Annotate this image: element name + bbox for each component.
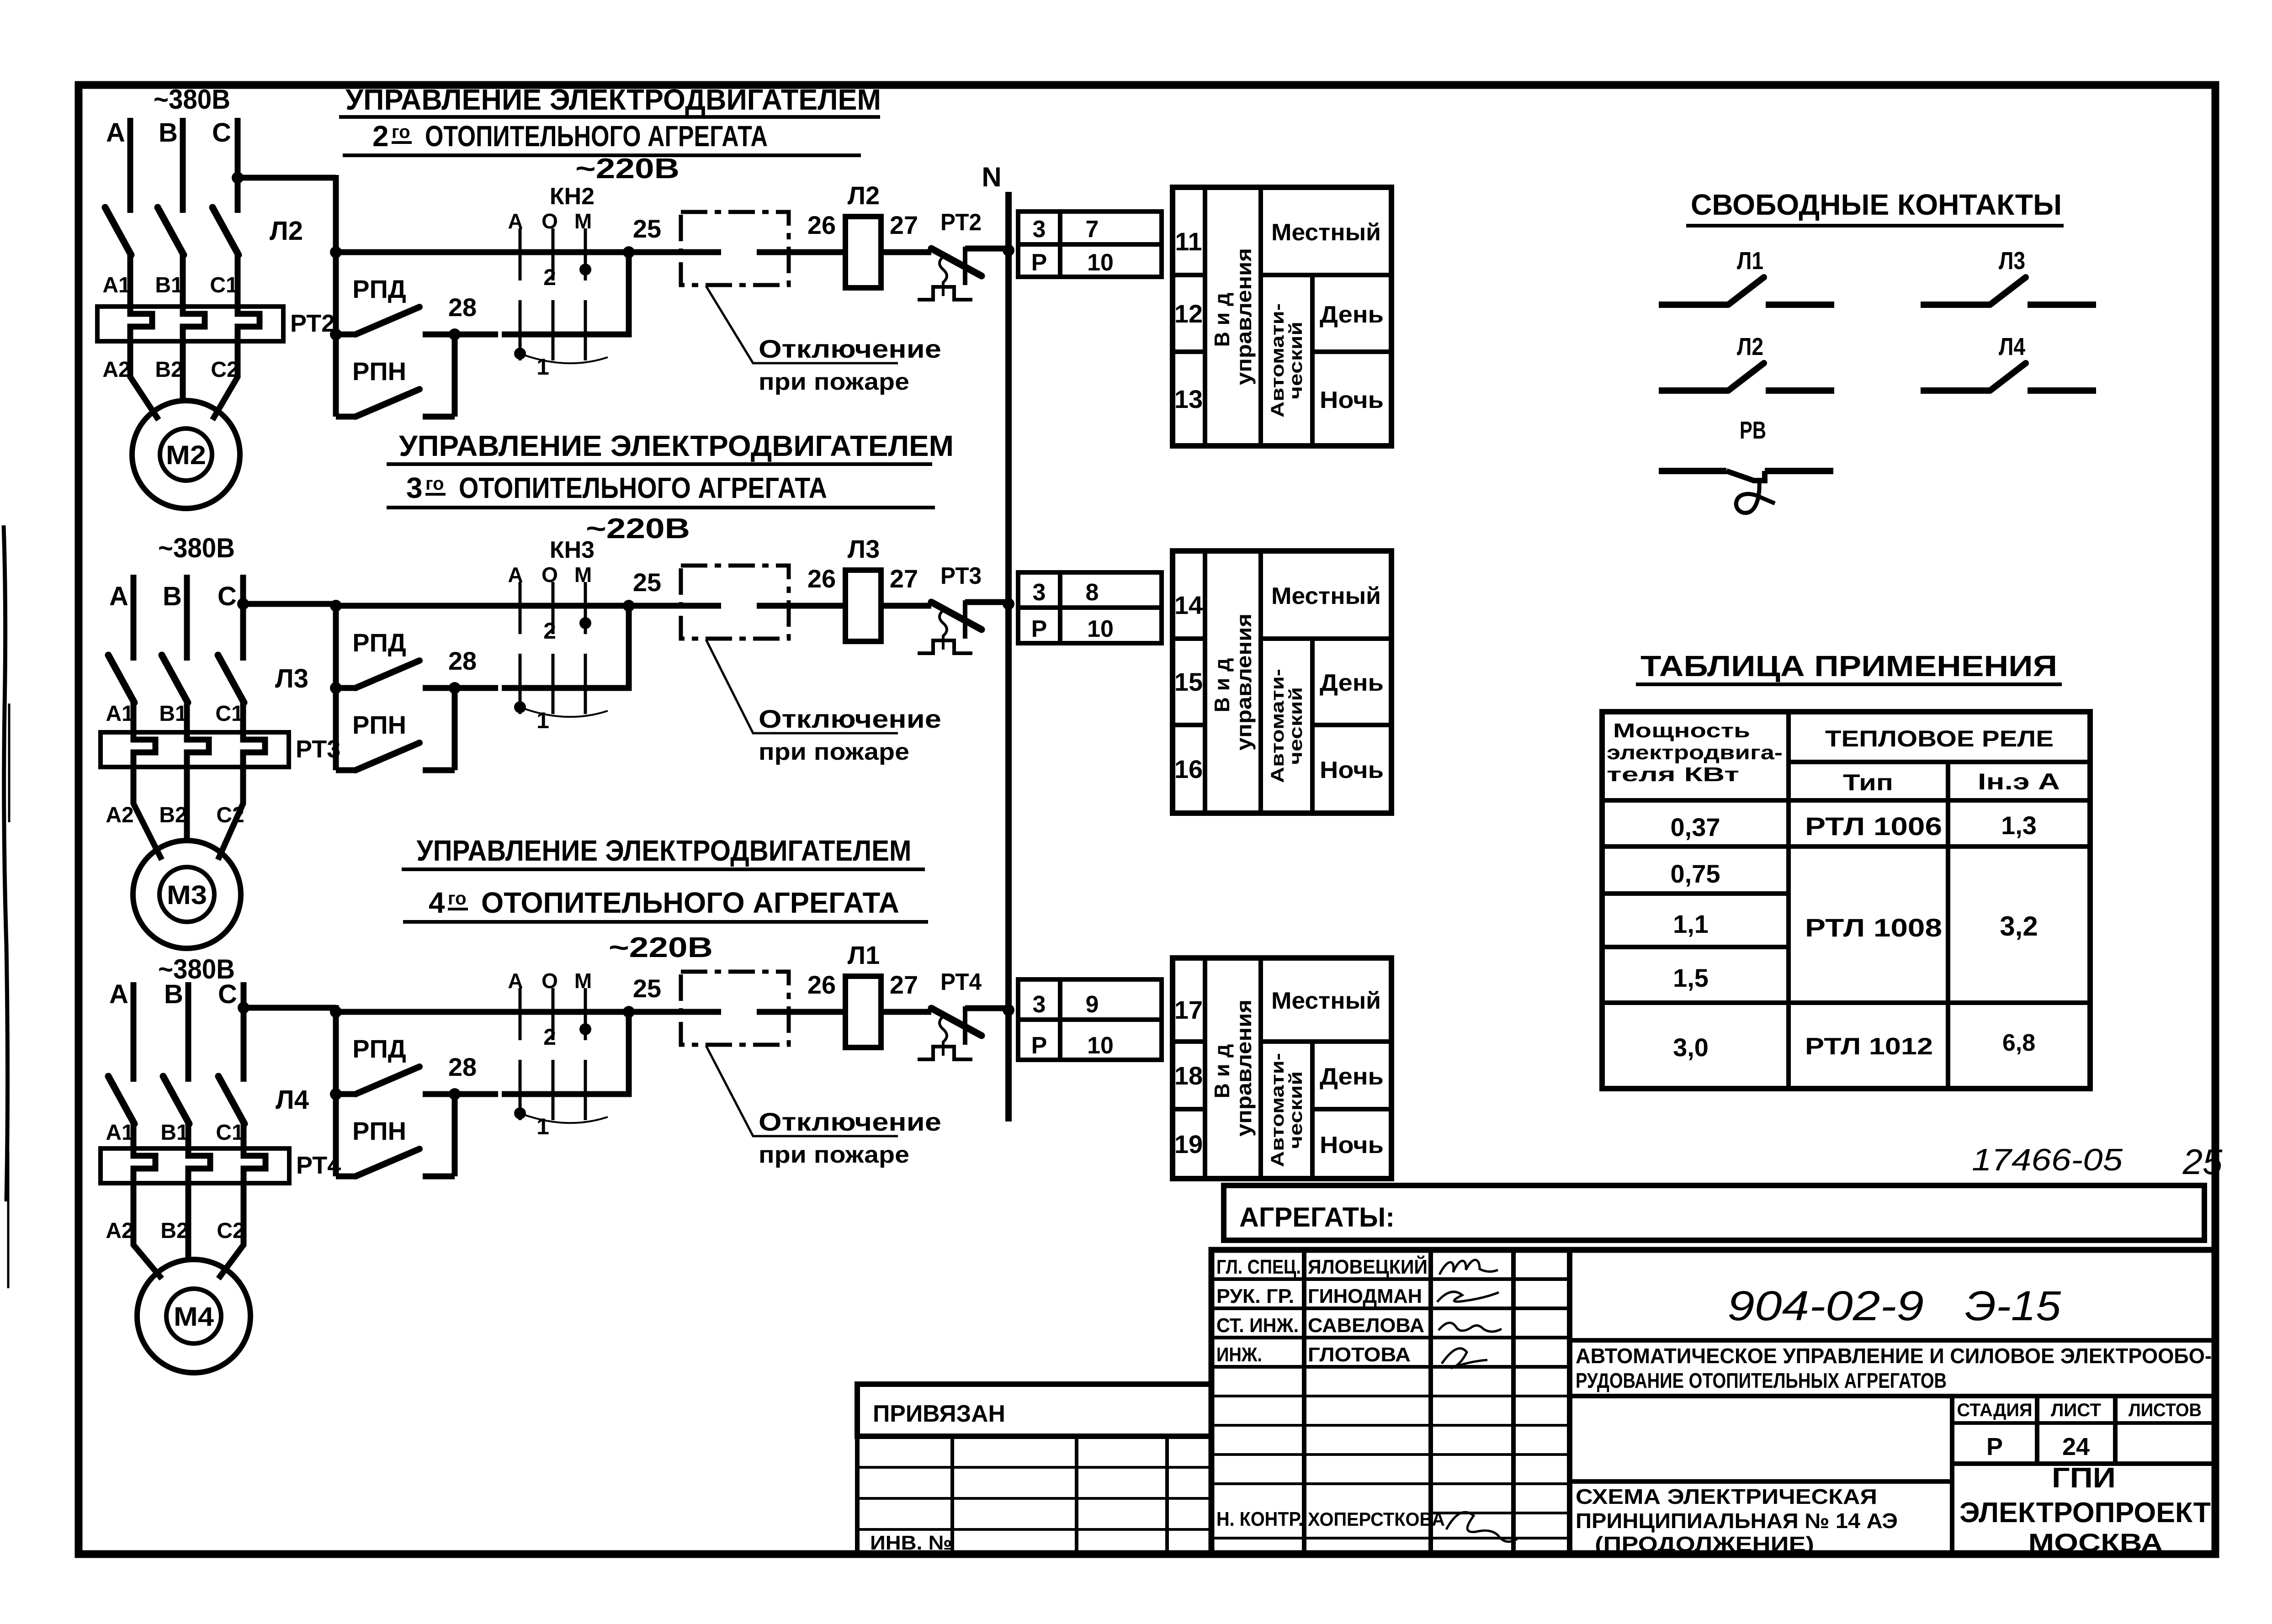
free contact L1 blade <box>1728 277 1764 305</box>
svg-text:ИНВ. №: ИНВ. № <box>870 1532 952 1554</box>
svg-text:при пожаре: при пожаре <box>759 739 909 765</box>
svg-text:ГИНОДМАН: ГИНОДМАН <box>1308 1285 1422 1307</box>
thermal relay РТ2 heater element pole C (circuit 1) <box>238 307 260 341</box>
svg-text:ческий: ческий <box>1286 1071 1306 1149</box>
fire-cutoff contact dash-dot box (circuit 3) <box>681 972 789 1045</box>
circuit 1 heading block <box>339 83 881 155</box>
wire coil to RT contact (circuit 2) <box>881 603 931 609</box>
svg-text:Л2: Л2 <box>1737 333 1763 360</box>
free contact RV time-delay hook <box>1736 481 1775 513</box>
svg-text:Л3: Л3 <box>848 534 880 563</box>
mode table 14-16 outer box <box>1173 551 1391 813</box>
svg-text:24: 24 <box>2062 1433 2090 1460</box>
switch upper contact ticks (circuit 3) <box>519 988 522 1040</box>
svg-text:День: День <box>1320 1063 1384 1090</box>
signature squiggle 3 <box>1439 1323 1502 1332</box>
heading underline 1 (circuit 3) <box>402 868 925 871</box>
svg-text:РТЛ 1006: РТЛ 1006 <box>1805 812 1942 841</box>
svg-text:Вид: Вид <box>1210 286 1234 347</box>
svg-text:ГЛ. СПЕЦ.: ГЛ. СПЕЦ. <box>1216 1256 1301 1278</box>
svg-text:РТ4: РТ4 <box>940 969 982 995</box>
junction dot feeder/main wire (circuit 1) <box>330 246 342 258</box>
wire phase C middle (circuit 3) <box>241 1122 247 1148</box>
junction dot feeder/RPD row (circuit 1) <box>330 328 342 340</box>
svg-text:управления: управления <box>1232 1000 1256 1137</box>
svg-text:Отключение: Отключение <box>759 334 941 363</box>
svg-text:УПРАВЛЕНИЕ ЭЛЕКТРОДВИГАТЕЛЕМ: УПРАВЛЕНИЕ ЭЛЕКТРОДВИГАТЕЛЕМ <box>399 429 954 462</box>
thermal contact РТ2 release bracket (circuit 1) <box>918 287 972 300</box>
svg-text:ПРИНЦИПИАЛЬНАЯ № 14 АЭ: ПРИНЦИПИАЛЬНАЯ № 14 АЭ <box>1576 1509 1898 1533</box>
signature squiggle 5 <box>1446 1512 1517 1542</box>
svg-text:25: 25 <box>633 214 661 243</box>
free contact RV left wire <box>1659 468 1726 474</box>
junction dot on N bus (circuit 3) <box>1003 1004 1014 1016</box>
svg-text:13: 13 <box>1174 385 1203 413</box>
svg-text:ГПИ: ГПИ <box>2052 1462 2116 1494</box>
svg-text:А2: А2 <box>102 358 130 382</box>
svg-text:В1: В1 <box>155 273 183 297</box>
svg-text:Л1: Л1 <box>1737 247 1763 275</box>
svg-text:Местный: Местный <box>1271 583 1381 609</box>
wire main control line left segment (circuit 3) <box>336 1009 498 1015</box>
svg-text:1: 1 <box>536 1114 549 1139</box>
fire-cutoff contact dash-dot box (circuit 1) <box>681 212 789 285</box>
svg-text:25: 25 <box>633 974 661 1003</box>
mode selection table rows 14-16 <box>1173 551 1391 813</box>
svg-text:Ночь: Ночь <box>1320 757 1384 783</box>
wire main control line through switch (circuit 1) <box>498 249 629 255</box>
wire phase B to motor (circuit 3) <box>186 1183 191 1261</box>
wire phase B middle (circuit 3) <box>186 1122 191 1148</box>
wire branch from phase C to control circuit (circuit 3) <box>244 1005 336 1011</box>
svg-text:Э-15: Э-15 <box>1965 1283 2061 1329</box>
svg-text:Тип: Тип <box>1843 770 1893 795</box>
wire phase C upper (circuit 1) <box>235 118 241 213</box>
title block outer box <box>1211 1250 2215 1554</box>
leader line to fire note (circuit 2) <box>706 640 898 733</box>
svg-text:РПН: РПН <box>352 710 406 739</box>
svg-text:ЯЛОВЕЦКИЙ: ЯЛОВЕЦКИЙ <box>1308 1255 1428 1278</box>
free contact L3 right wire <box>2028 302 2096 308</box>
thermal relay РТ3 heater element pole B (circuit 2) <box>187 732 209 767</box>
stage/sheet grid lines <box>1950 1396 1954 1554</box>
svg-text:МОСКВА: МОСКВА <box>2028 1528 2163 1557</box>
svg-text:М: М <box>574 209 592 233</box>
heading underline 1 (circuit 1) <box>339 115 880 119</box>
thermal relay РТ3 heater element pole A (circuit 2) <box>133 732 155 767</box>
svg-text:М3: М3 <box>167 880 207 910</box>
wire main control line left segment (circuit 1) <box>336 249 498 255</box>
heading underline 2 (circuit 2) <box>387 506 935 509</box>
wire phase C upper (circuit 3) <box>241 982 247 1082</box>
coil Л3 rectangle (circuit 2) <box>845 570 881 641</box>
contact RPN right wire (circuit 1) <box>423 414 455 420</box>
contactor Л2 blade pole C (circuit 1) <box>212 207 239 255</box>
thermal contact РТ2 blade (circuit 1) <box>931 249 982 276</box>
svg-text:27: 27 <box>890 211 918 239</box>
contact RPD left wire (circuit 2) <box>336 685 356 691</box>
signature squiggle 1 <box>1439 1260 1498 1275</box>
node 25 junction dot (circuit 3) <box>623 1006 635 1018</box>
mode table 14-16 grid lines <box>1203 551 1207 813</box>
svg-text:электродвига-: электродвига- <box>1607 741 1783 764</box>
mode table 14-16 vertical header Avtomaticheskiy <box>1268 669 1306 783</box>
svg-text:РПД: РПД <box>352 1034 406 1063</box>
svg-text:управления: управления <box>1232 248 1256 385</box>
svg-text:11: 11 <box>1175 227 1202 256</box>
node 25 junction dot (circuit 2) <box>623 600 635 612</box>
neutral bus N vertical wire <box>1005 192 1012 1121</box>
wire main control line through switch (circuit 3) <box>498 1009 629 1015</box>
free contact L4 blade <box>1990 363 2026 391</box>
contact RPN right wire (circuit 2) <box>423 767 455 773</box>
wire vertical feeder x=735 (circuit 1) <box>333 175 339 417</box>
wire vertical feeder x=735 (circuit 3) <box>333 1005 339 1176</box>
connection table 3/7 (circuit 1) <box>1018 212 1162 277</box>
svg-text:РПД: РПД <box>352 275 406 303</box>
title block line under project title <box>1570 1394 2215 1398</box>
power circuit 2 (motor M3) <box>101 533 340 948</box>
thermal contact РТ3 release squiggle (circuit 2) <box>940 610 947 650</box>
svg-text:го: го <box>448 889 467 909</box>
heading underline 2 (circuit 1) <box>343 153 861 157</box>
control circuit 3 (coil L1) <box>330 932 1162 1176</box>
svg-text:В: В <box>159 118 178 148</box>
svg-text:Р: Р <box>1986 1433 2003 1460</box>
svg-text:27: 27 <box>890 564 918 593</box>
wire phase C upper (circuit 2) <box>240 575 246 661</box>
free contact RV right wire <box>1765 468 1833 474</box>
svg-text:19: 19 <box>1174 1130 1203 1158</box>
svg-text:День: День <box>1320 670 1384 696</box>
mode table 11-13 grid lines <box>1203 187 1207 446</box>
svg-text:В2: В2 <box>159 803 187 827</box>
node 28 junction dot (circuit 3) <box>449 1088 461 1100</box>
svg-text:управления: управления <box>1232 614 1256 751</box>
switch lower contact ticks (circuit 1) <box>519 300 522 360</box>
svg-text:при пожаре: при пожаре <box>759 1142 909 1168</box>
wire phase C to motor (circuit 2) <box>218 767 243 860</box>
thermal relay РТ3 box (circuit 2) <box>101 732 289 767</box>
svg-text:25: 25 <box>633 568 661 597</box>
leader line to fire note (circuit 1) <box>706 286 898 363</box>
mode table 11-13 outer box <box>1173 187 1391 446</box>
Privyazan block <box>857 1384 1211 1554</box>
svg-text:С: С <box>212 118 231 148</box>
svg-text:28: 28 <box>448 646 477 675</box>
coil Л2 rectangle (circuit 1) <box>845 217 881 288</box>
svg-text:С2: С2 <box>217 1219 244 1243</box>
junction dot on N bus (circuit 1) <box>1003 244 1014 256</box>
svg-text:Л3: Л3 <box>275 664 308 693</box>
mode table 11-13 vertical header Vid upravleniya <box>1210 248 1256 385</box>
motor М4 outer circle (circuit 3) <box>137 1259 250 1373</box>
node 28 junction dot (circuit 1) <box>449 328 461 340</box>
svg-text:ПРИВЯЗАН: ПРИВЯЗАН <box>873 1401 1005 1427</box>
svg-text:28: 28 <box>448 293 477 322</box>
fire-cutoff contact wire stubs (circuit 3) <box>629 1009 721 1015</box>
svg-text:4: 4 <box>429 886 445 919</box>
thermal relay РТ2 heater element pole A (circuit 1) <box>130 307 152 341</box>
svg-text:ЛИСТОВ: ЛИСТОВ <box>2129 1400 2202 1420</box>
contact RPN blade (circuit 3) <box>356 1149 419 1176</box>
svg-text:РВ: РВ <box>1740 417 1766 444</box>
svg-text:ХОПЕРСТКОВА: ХОПЕРСТКОВА <box>1308 1508 1445 1530</box>
svg-text:В: В <box>163 582 182 611</box>
motor М2 inner circle (circuit 1) <box>160 428 212 481</box>
switch upper contact ticks (circuit 2) <box>519 582 522 634</box>
svg-text:14: 14 <box>1174 591 1203 619</box>
switch M-position dot (circuit 1) <box>579 264 591 275</box>
application table outer box <box>1602 712 2090 1089</box>
wire vertical feeder x=735 (circuit 2) <box>333 601 339 770</box>
svg-text:6,8: 6,8 <box>2002 1030 2035 1056</box>
switch upper contact ticks (circuit 1) <box>519 228 522 280</box>
svg-text:РТ2: РТ2 <box>940 209 982 236</box>
svg-text:3: 3 <box>1033 216 1046 243</box>
svg-text:1,3: 1,3 <box>2001 811 2037 840</box>
switch coupling arc (circuit 3) <box>520 1113 608 1123</box>
contactor Л4 blade pole A (circuit 3) <box>108 1076 134 1124</box>
wire main control line through switch (circuit 2) <box>498 603 629 609</box>
svg-text:А: А <box>109 582 128 611</box>
coil Л1 rectangle (circuit 3) <box>845 976 881 1047</box>
node 28 junction dot (circuit 2) <box>449 682 461 694</box>
thermal contact РТ4 release squiggle (circuit 3) <box>940 1016 947 1056</box>
svg-text:ОТОПИТЕЛЬНОГО АГРЕГАТА: ОТОПИТЕЛЬНОГО АГРЕГАТА <box>425 120 768 153</box>
svg-text:904-02-9: 904-02-9 <box>1727 1283 1924 1329</box>
svg-text:С1: С1 <box>215 702 243 726</box>
wire phase B to motor (circuit 1) <box>180 341 186 402</box>
svg-text:АВТОМАТИЧЕСКОЕ УПРАВЛЕНИЕ И СИ: АВТОМАТИЧЕСКОЕ УПРАВЛЕНИЕ И СИЛОВОЕ ЭЛЕК… <box>1576 1344 2212 1368</box>
svg-text:2: 2 <box>372 120 389 153</box>
wire node25 drop to lower switch row (circuit 3) <box>502 1012 629 1094</box>
wire phase B middle (circuit 1) <box>180 254 186 307</box>
svg-text:С1: С1 <box>216 1121 244 1145</box>
wire phase C to motor (circuit 1) <box>212 341 238 420</box>
wire node25 drop to lower switch row (circuit 1) <box>502 252 629 334</box>
contact RPD right wire to node 28 (circuit 3) <box>423 1091 498 1097</box>
thermal contact РТ2 output wire to N bus (circuit 1) <box>965 246 1008 252</box>
junction dot feeder/RPD row (circuit 2) <box>330 682 342 694</box>
title block line under document number <box>1570 1338 2215 1343</box>
signature squiggle 2 <box>1437 1292 1499 1302</box>
svg-text:А2: А2 <box>106 1219 133 1243</box>
wire phase A upper (circuit 2) <box>131 575 137 661</box>
wire phase A upper (circuit 1) <box>127 118 133 213</box>
thermal relay РТ4 heater element pole C (circuit 3) <box>244 1148 265 1183</box>
wire phase C to motor (circuit 3) <box>218 1183 244 1279</box>
svg-text:В1: В1 <box>159 702 187 726</box>
svg-text:N: N <box>982 162 1001 192</box>
thermal contact РТ3 fixed terminal (circuit 2) <box>963 600 967 639</box>
svg-text:10: 10 <box>1087 249 1114 276</box>
svg-text:А1: А1 <box>102 273 130 297</box>
svg-text:Автомати-: Автомати- <box>1268 303 1288 418</box>
wire coil to RT contact (circuit 3) <box>881 1009 931 1015</box>
application table column lines <box>1786 712 1791 1089</box>
junction dot on N bus (circuit 2) <box>1003 598 1014 610</box>
Privyazan box <box>857 1384 1211 1436</box>
svg-text:(ПРОДОЛЖЕНИЕ): (ПРОДОЛЖЕНИЕ) <box>1595 1532 1814 1556</box>
svg-text:17: 17 <box>1174 995 1203 1024</box>
wire node28 vertical to RPN row (circuit 1) <box>452 332 458 417</box>
svg-text:СТАДИЯ: СТАДИЯ <box>1957 1400 2033 1420</box>
svg-text:ЭЛЕКТРОПРОЕКТ: ЭЛЕКТРОПРОЕКТ <box>1959 1497 2211 1529</box>
svg-text:РПД: РПД <box>352 628 406 657</box>
thermal relay РТ3 heater element pole C (circuit 2) <box>243 732 265 767</box>
wire node28 vertical to RPN row (circuit 3) <box>452 1091 458 1176</box>
mode table 17-19 grid lines <box>1203 958 1207 1179</box>
free contact L2 left wire <box>1659 387 1728 394</box>
svg-text:А: А <box>109 979 128 1009</box>
wire branch from phase C to control circuit (circuit 1) <box>238 175 336 181</box>
section title underline <box>1686 224 2064 227</box>
fire-cutoff contact wire stubs (circuit 1) <box>629 249 721 255</box>
svg-text:1,5: 1,5 <box>1673 963 1709 992</box>
svg-text:~220В: ~220В <box>575 153 679 185</box>
svg-text:1,1: 1,1 <box>1673 910 1709 938</box>
circuit 2 heading block <box>387 429 954 508</box>
junction dot feeder/main wire (circuit 2) <box>330 600 342 612</box>
application table header row lines <box>1789 760 2090 764</box>
switch lower contact ticks (circuit 3) <box>519 1060 522 1120</box>
svg-text:День: День <box>1320 302 1384 328</box>
mode table 17-19 vertical header Vid upravleniya <box>1210 1000 1256 1137</box>
svg-text:3: 3 <box>1033 991 1046 1018</box>
contactor Л4 blade pole C (circuit 3) <box>218 1076 244 1124</box>
contact RPD blade (circuit 3) <box>356 1067 419 1094</box>
svg-text:УПРАВЛЕНИЕ ЭЛЕКТРОДВИГАТЕЛЕМ: УПРАВЛЕНИЕ ЭЛЕКТРОДВИГАТЕЛЕМ <box>345 83 881 116</box>
connection table 3/8 (circuit 2) <box>1018 572 1162 643</box>
contactor Л3 blade pole A (circuit 2) <box>108 655 134 703</box>
svg-text:~380В: ~380В <box>154 84 230 115</box>
svg-text:9: 9 <box>1086 991 1099 1018</box>
scan artifact: left margin streak <box>4 525 8 1201</box>
svg-text:при пожаре: при пожаре <box>759 369 909 395</box>
signature table row lines <box>1211 1277 1570 1281</box>
svg-text:М2: М2 <box>166 440 206 470</box>
motor М3 outer circle (circuit 2) <box>133 841 241 948</box>
svg-text:ЛИСТ: ЛИСТ <box>2051 1400 2101 1420</box>
motor М4 inner circle (circuit 3) <box>166 1289 221 1344</box>
svg-text:О: О <box>541 969 558 993</box>
svg-text:РУК. ГР.: РУК. ГР. <box>1216 1285 1294 1307</box>
contact RPD right wire to node 28 (circuit 2) <box>423 685 498 691</box>
contact RPN blade (circuit 1) <box>356 389 419 417</box>
wire phase A to motor (circuit 1) <box>130 341 159 420</box>
svg-text:Р: Р <box>1031 1032 1047 1059</box>
wire phase A middle (circuit 1) <box>127 254 133 307</box>
motor М2 outer circle (circuit 1) <box>132 401 240 508</box>
svg-text:Мощность: Мощность <box>1613 719 1750 742</box>
free contact RV slanted bridge <box>1726 471 1765 481</box>
thermal relay РТ4 box (circuit 3) <box>101 1148 289 1183</box>
svg-text:А1: А1 <box>106 702 133 726</box>
wire phase A middle (circuit 2) <box>131 701 137 732</box>
svg-text:ИНЖ.: ИНЖ. <box>1216 1344 1262 1366</box>
contact RPN right wire (circuit 3) <box>423 1174 455 1180</box>
wire phase A to motor (circuit 3) <box>133 1183 162 1279</box>
motor М3 inner circle (circuit 2) <box>159 867 214 922</box>
switch coupling arc (circuit 1) <box>520 354 608 363</box>
thermal contact РТ2 fixed terminal (circuit 1) <box>963 247 967 285</box>
svg-text:М: М <box>574 563 592 587</box>
contact RPD blade (circuit 2) <box>356 661 419 688</box>
svg-text:3,0: 3,0 <box>1673 1033 1709 1062</box>
thermal contact РТ4 blade (circuit 3) <box>931 1008 982 1036</box>
svg-text:18: 18 <box>1174 1061 1203 1090</box>
svg-text:~220В: ~220В <box>586 513 690 545</box>
application table (Tablitsa primeneniya) <box>1602 650 2090 1089</box>
svg-text:М: М <box>574 969 592 993</box>
svg-text:ОТОПИТЕЛЬНОГО АГРЕГАТА: ОТОПИТЕЛЬНОГО АГРЕГАТА <box>481 886 899 919</box>
strip box Agregaty <box>1224 1185 2204 1240</box>
svg-text:С: С <box>218 979 237 1009</box>
svg-text:СХЕМА ЭЛЕКТРИЧЕСКАЯ: СХЕМА ЭЛЕКТРИЧЕСКАЯ <box>1576 1485 1877 1508</box>
svg-text:Местный: Местный <box>1271 219 1381 246</box>
svg-text:3,2: 3,2 <box>2000 911 2038 942</box>
free contact L3 blade <box>1990 277 2026 305</box>
wire phase B upper (circuit 3) <box>186 982 191 1082</box>
wire phase A upper (circuit 3) <box>131 982 137 1082</box>
svg-text:Р: Р <box>1031 249 1047 276</box>
svg-text:Местный: Местный <box>1271 988 1381 1014</box>
svg-text:М4: М4 <box>174 1302 214 1332</box>
free contact L1 left wire <box>1659 302 1728 308</box>
svg-text:0,37: 0,37 <box>1671 813 1720 841</box>
wire branch from phase C to control circuit (circuit 2) <box>243 601 336 607</box>
svg-text:го: го <box>425 474 444 494</box>
contactor Л2 blade pole B (circuit 1) <box>158 207 184 255</box>
svg-text:1: 1 <box>536 708 549 733</box>
title block divider signature/main <box>1567 1250 1572 1554</box>
svg-text:Л2: Л2 <box>270 216 303 246</box>
svg-text:Вид: Вид <box>1210 1038 1234 1099</box>
svg-text:ческий: ческий <box>1286 687 1306 765</box>
svg-text:0,75: 0,75 <box>1671 859 1720 888</box>
mode selection table rows 17-19 <box>1173 958 1391 1179</box>
svg-text:Iн.э А: Iн.э А <box>1978 769 2060 794</box>
wire node25 drop to lower switch row (circuit 2) <box>502 606 629 688</box>
wire phase A middle (circuit 3) <box>131 1122 137 1148</box>
svg-text:15: 15 <box>1174 667 1203 696</box>
svg-text:ОТОПИТЕЛЬНОГО АГРЕГАТА: ОТОПИТЕЛЬНОГО АГРЕГАТА <box>459 471 827 504</box>
svg-text:2: 2 <box>543 264 556 290</box>
svg-text:РПН: РПН <box>352 357 406 386</box>
svg-text:го: го <box>392 122 410 142</box>
svg-text:СТ. ИНЖ.: СТ. ИНЖ. <box>1216 1314 1299 1337</box>
contactor Л3 blade pole C (circuit 2) <box>218 655 244 703</box>
switch A-position dot lower row (circuit 3) <box>514 1107 526 1119</box>
fire-cutoff contact wire stubs (circuit 2) <box>629 603 721 609</box>
mode selection table rows 11-13 <box>1173 187 1391 446</box>
svg-text:РТЛ 1012: РТЛ 1012 <box>1805 1033 1933 1060</box>
svg-text:Автомати-: Автомати- <box>1268 669 1288 783</box>
svg-text:РТ3: РТ3 <box>940 563 982 589</box>
thermal relay РТ4 heater element pole A (circuit 3) <box>133 1148 155 1183</box>
svg-text:С: С <box>218 582 237 611</box>
svg-text:ческий: ческий <box>1286 322 1306 399</box>
leader line to fire note (circuit 3) <box>706 1046 898 1136</box>
title block <box>1211 1250 2215 1557</box>
wire node28 vertical to RPN row (circuit 2) <box>452 685 458 770</box>
thermal contact РТ2 release squiggle (circuit 1) <box>940 257 947 296</box>
svg-text:25: 25 <box>2182 1142 2223 1182</box>
mode table 14-16 vertical header Vid upravleniya <box>1210 614 1256 751</box>
switch coupling arc (circuit 2) <box>520 707 608 717</box>
wire coil to RT contact (circuit 1) <box>881 249 931 255</box>
